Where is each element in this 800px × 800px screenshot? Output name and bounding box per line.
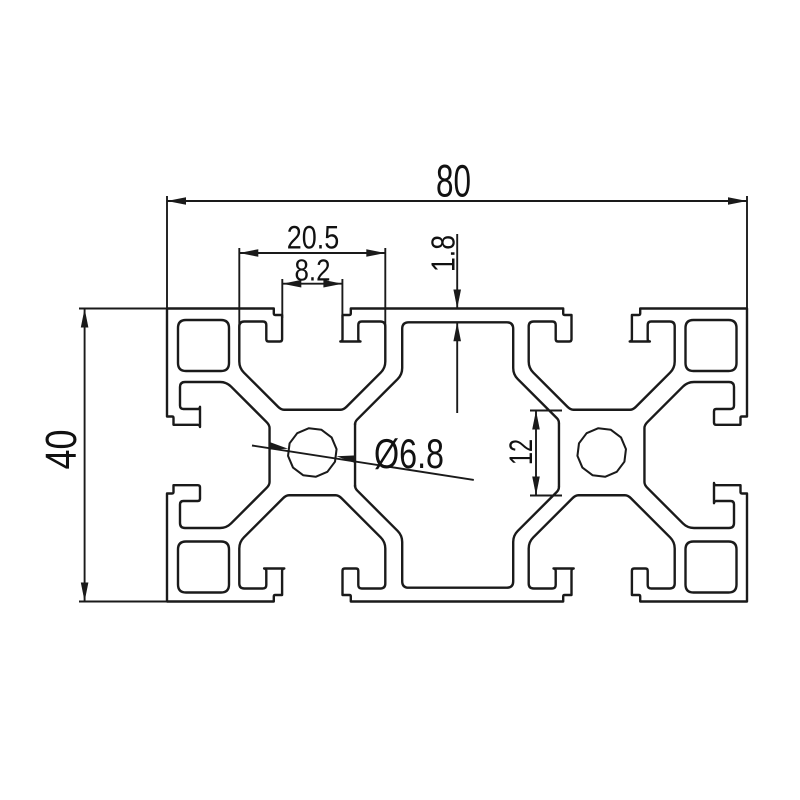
svg-text:20.5: 20.5 <box>287 219 340 255</box>
svg-text:Ø6.8: Ø6.8 <box>374 430 444 477</box>
svg-text:12: 12 <box>503 439 539 465</box>
svg-text:40: 40 <box>37 430 86 470</box>
svg-text:1.8: 1.8 <box>425 235 462 272</box>
svg-text:80: 80 <box>436 156 471 207</box>
svg-text:8.2: 8.2 <box>295 252 331 287</box>
